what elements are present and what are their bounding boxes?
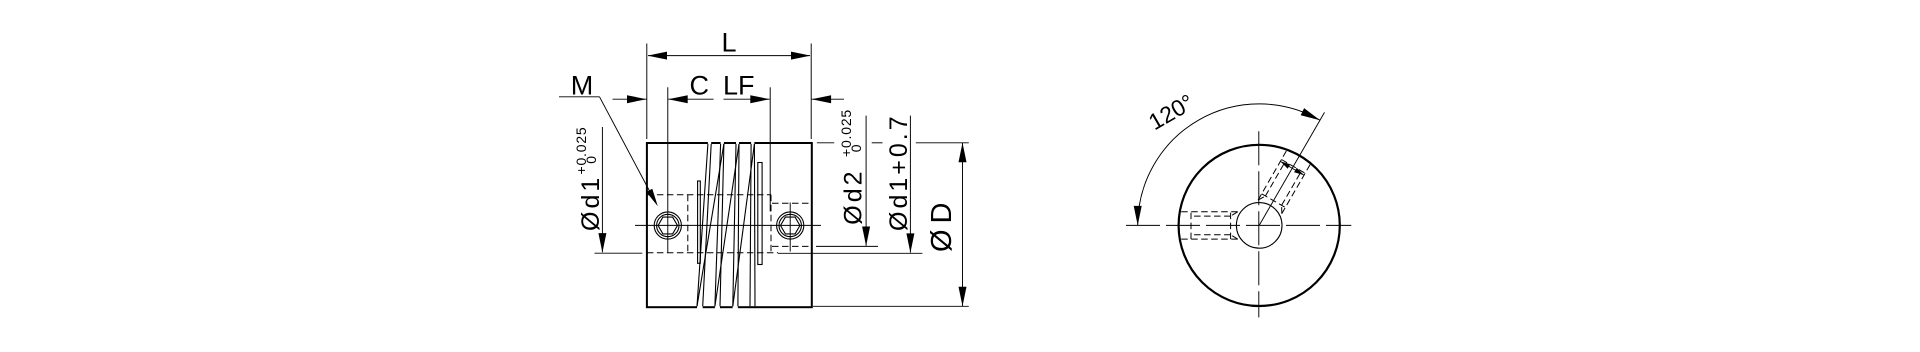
- svg-text:Ød1: Ød1: [577, 175, 605, 231]
- svg-text:C: C: [690, 71, 710, 101]
- svg-text:L: L: [722, 28, 737, 58]
- svg-text:M: M: [571, 70, 594, 100]
- svg-text:ØD: ØD: [926, 197, 958, 253]
- svg-text:+0.025: +0.025: [573, 126, 589, 174]
- svg-text:0: 0: [583, 155, 599, 164]
- svg-text:Ød1+0.7: Ød1+0.7: [885, 113, 913, 231]
- svg-text:0: 0: [848, 144, 864, 153]
- svg-text:LF: LF: [723, 71, 755, 101]
- svg-text:Ød2: Ød2: [839, 168, 867, 224]
